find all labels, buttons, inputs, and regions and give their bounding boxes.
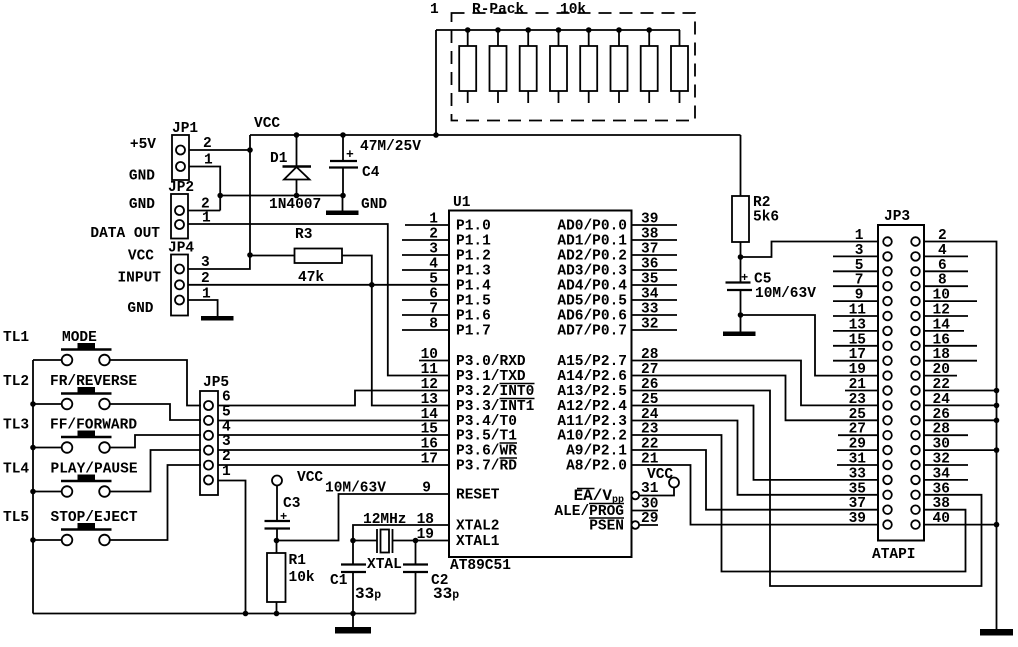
wire U1 pin25 A12/P2.4 to JP3 pin33 <box>632 406 879 480</box>
connector JP4 <box>171 255 188 316</box>
svg-text:10: 10 <box>421 347 438 363</box>
svg-text:VCC: VCC <box>128 249 154 265</box>
U1 pin 12 P3.2 <box>421 377 535 400</box>
svg-text:1: 1 <box>430 2 439 18</box>
svg-text:33: 33 <box>641 302 658 318</box>
wire U1 pin21 A8/P2.0 to JP3 pin39 <box>632 465 879 525</box>
wire JP5 pin2 to U1 pin17 <box>218 464 449 466</box>
wire button common vertical <box>32 360 34 614</box>
U1 pin 16 P3.6 <box>421 437 518 460</box>
U1 pin 32 stub AD7/P0.7 <box>557 317 677 340</box>
svg-text:PLAY/PAUSE: PLAY/PAUSE <box>51 462 138 478</box>
svg-text:FF/FORWARD: FF/FORWARD <box>50 418 137 434</box>
svg-text:+: + <box>741 271 748 285</box>
svg-text:INPUT: INPUT <box>117 271 161 287</box>
svg-text:AD7/P0.7: AD7/P0.7 <box>557 324 627 340</box>
svg-text:TL3: TL3 <box>3 418 29 434</box>
svg-text:3: 3 <box>429 242 438 258</box>
wire JP5 pin4 to U1 pin15 <box>218 434 449 436</box>
svg-text:38: 38 <box>641 227 658 243</box>
svg-text:AD5/P0.5: AD5/P0.5 <box>557 294 627 310</box>
svg-text:P1.0: P1.0 <box>456 219 491 235</box>
U1 pin 25 label A12/P2.4 <box>557 392 658 415</box>
svg-text:15: 15 <box>421 422 438 438</box>
svg-text:AD6/P0.6: AD6/P0.6 <box>557 309 627 325</box>
ground symbol right <box>980 629 1013 636</box>
svg-text:FR/REVERSE: FR/REVERSE <box>50 374 137 390</box>
U1 pin 2 stub P1.1 <box>402 227 491 250</box>
U1 pin 37 stub AD2/P0.2 <box>557 242 677 265</box>
svg-text:P1.2: P1.2 <box>456 249 491 265</box>
svg-text:MODE: MODE <box>62 330 97 346</box>
wire U1 pin27 A14/P2.6 to JP3 pin25 <box>632 376 879 421</box>
U1 pin 14 P3.4 <box>421 407 517 430</box>
wire TL5 to JP5 <box>110 465 201 540</box>
junction C4/GND <box>340 193 346 199</box>
svg-text:10k: 10k <box>289 570 315 586</box>
svg-text:R1: R1 <box>289 553 307 569</box>
U1 pin 6 stub P1.5 <box>402 287 491 310</box>
resistor R-Pack element 8 <box>671 30 688 103</box>
svg-text:6: 6 <box>222 390 231 406</box>
U1 pin 21 label A8/P2.0 <box>566 452 659 475</box>
wire JP3 pin 15 stub <box>833 345 878 347</box>
svg-text:P3.7/RD: P3.7/RD <box>456 459 517 475</box>
svg-text:12: 12 <box>421 377 438 393</box>
svg-text:A8/P2.0: A8/P2.0 <box>566 459 627 475</box>
junction ground bus pin 22 <box>994 388 1000 394</box>
wire JP4 pin1 to ground <box>188 300 218 316</box>
wire JP3 pin 5 stub <box>833 270 878 272</box>
wire JP3 pin 28 stub <box>924 434 968 436</box>
svg-text:1: 1 <box>222 464 231 480</box>
resistor R3 <box>250 249 372 285</box>
U1 pin 3 stub P1.2 <box>402 242 491 265</box>
wire U1 XTAL1 to crystal <box>416 540 450 542</box>
svg-text:AD2/P0.2: AD2/P0.2 <box>557 249 627 265</box>
wire JP3 pin 20 stub <box>924 375 957 377</box>
svg-text:AD1/P0.1: AD1/P0.1 <box>557 234 627 250</box>
svg-text:4: 4 <box>429 257 438 273</box>
junction common/TL5 <box>30 537 36 543</box>
junction D1/VCC <box>294 132 300 138</box>
svg-text:P3.2/INT0: P3.2/INT0 <box>456 384 534 400</box>
svg-text:JP3: JP3 <box>884 209 910 225</box>
svg-text:JP4: JP4 <box>168 241 194 257</box>
svg-text:AD0/P0.0: AD0/P0.0 <box>557 219 627 235</box>
connector JP5 <box>200 391 218 495</box>
wire DATA OUT to U1 pin11 TXD <box>188 224 449 376</box>
wire JP3 pin2 to ground bus <box>924 242 997 630</box>
svg-text:GND: GND <box>129 169 155 185</box>
U1 pin 19 XTAL1 label <box>417 527 500 550</box>
capacitor C4 <box>329 135 358 196</box>
U1 pin 1 stub P1.0 <box>405 212 491 235</box>
resistor R-Pack element 4 <box>550 27 567 103</box>
svg-text:10k: 10k <box>560 2 586 18</box>
wire U1 pin24 A11/P2.3 to JP3 pin35 <box>632 421 879 495</box>
svg-text:JP2: JP2 <box>168 180 194 196</box>
svg-text:10M/63V: 10M/63V <box>755 286 816 302</box>
U1 pin 18 XTAL2 label <box>417 512 500 535</box>
ground symbol JP4 <box>201 316 234 321</box>
U1 pin 31 EA/Vpp <box>574 481 659 506</box>
svg-text:U1: U1 <box>453 195 471 211</box>
power VCC symbol at pin31 <box>669 478 679 488</box>
svg-text:AD4/P0.4: AD4/P0.4 <box>557 279 627 295</box>
wire U1 pin28 A15/P2.7 to JP3 pin23 <box>632 361 879 406</box>
junction JP5 pin1/ground rail <box>243 611 249 617</box>
ground symbol C5 <box>723 332 756 337</box>
svg-text:P3.5/T1: P3.5/T1 <box>456 429 517 445</box>
svg-text:+5V: +5V <box>130 137 156 153</box>
U1 pin 27 label A14/P2.6 <box>557 362 658 385</box>
junction R1/ground rail <box>274 611 280 617</box>
capacitor C5 <box>726 257 753 332</box>
U1 pin 24 label A11/P2.3 <box>557 407 658 430</box>
capacitor C2 <box>403 541 428 614</box>
wire JP3 pin 27 stub <box>838 434 878 436</box>
ground symbol bottom <box>335 614 371 634</box>
svg-text:8: 8 <box>429 317 438 333</box>
wire JP3 pin 8 stub <box>924 285 968 287</box>
svg-text:VCC: VCC <box>297 470 323 486</box>
U1 pin 38 stub AD1/P0.1 <box>557 227 677 250</box>
U1 pin 23 label A10/P2.2 <box>557 422 658 445</box>
wire JP3 pin 26 to ground bus <box>924 419 997 421</box>
junction ground bus pin 30 <box>994 447 1000 453</box>
wire JP3 pin 9 stub <box>833 300 878 302</box>
svg-text:TL5: TL5 <box>3 510 29 526</box>
wire TL3 to JP5 <box>110 435 201 448</box>
svg-text:2: 2 <box>429 227 438 243</box>
svg-text:4: 4 <box>222 419 231 435</box>
power VCC symbol at C3 <box>272 476 282 486</box>
svg-text:1: 1 <box>855 228 864 244</box>
junction common/TL2 <box>30 401 36 407</box>
svg-text:10M/63V: 10M/63V <box>325 481 386 497</box>
svg-text:12MHz: 12MHz <box>363 512 407 528</box>
wire JP3 pin 24 to ground bus <box>924 404 997 406</box>
U1 pin 5 stub P1.4 <box>429 271 491 294</box>
svg-text:GND: GND <box>361 197 387 213</box>
svg-text:C4: C4 <box>362 165 380 181</box>
wire JP3 pin 29 stub <box>837 449 878 451</box>
ground symbol near C4 <box>326 196 359 216</box>
svg-text:A13/P2.5: A13/P2.5 <box>557 384 627 400</box>
svg-text:A14/P2.6: A14/P2.6 <box>557 369 627 385</box>
wire JP3 pin 3 stub <box>833 255 878 257</box>
wire JP3 pin 32 stub <box>924 464 968 466</box>
wire R-Pack common bus <box>436 29 680 31</box>
crystal XTAL <box>353 529 416 553</box>
diode D1 <box>283 135 312 196</box>
wire JP3 pin 10 stub <box>924 300 977 302</box>
U1 pin 30 ALE/PROG <box>554 497 658 521</box>
wire JP3 pin 11 stub <box>833 315 878 317</box>
svg-text:1N4007: 1N4007 <box>269 197 321 213</box>
U1 pin 33 stub AD6/P0.6 <box>557 302 677 325</box>
junction R2/C5/JP3 pin1 <box>738 254 744 260</box>
svg-text:JP1: JP1 <box>172 121 198 137</box>
svg-text:XTAL2: XTAL2 <box>456 519 500 535</box>
junction INPUT/R3 <box>369 282 375 288</box>
wire JP3 pin 7 stub <box>833 285 878 287</box>
svg-text:A10/P2.2: A10/P2.2 <box>557 429 627 445</box>
connector JP2 <box>171 194 188 239</box>
svg-text:32: 32 <box>641 317 658 333</box>
svg-text:DATA OUT: DATA OUT <box>90 226 160 242</box>
junction R-Pack/VCC <box>433 132 439 138</box>
junction JP1 GND/JP2 GND <box>217 193 223 199</box>
wire TL2 to JP5 <box>110 404 201 420</box>
wire JP3 pin 18 stub <box>924 360 977 362</box>
junction ground bus pin 26 <box>994 418 1000 424</box>
resistor R1 <box>267 541 286 614</box>
U1 pin 11 P3.1 <box>421 362 526 385</box>
resistor R-Pack element 1 <box>459 27 476 103</box>
wire U1 pin22 A9/P2.1 to JP3 pin37 <box>632 450 879 510</box>
svg-text:GND: GND <box>127 301 153 317</box>
svg-text:3: 3 <box>222 434 231 450</box>
op-amp U1 microcontroller body <box>449 211 632 558</box>
svg-text:P1.6: P1.6 <box>456 309 491 325</box>
svg-text:P1.4: P1.4 <box>456 278 491 294</box>
wire GND net horizontal <box>220 195 342 197</box>
svg-text:A9/P2.1: A9/P2.1 <box>566 444 627 460</box>
svg-text:11: 11 <box>421 362 439 378</box>
svg-text:29: 29 <box>641 511 658 527</box>
resistor R-Pack element 2 <box>490 27 507 103</box>
wire JP3 pin 40 to ground bus <box>924 524 997 526</box>
svg-text:16: 16 <box>421 437 438 453</box>
wire JP2 pin2 to GND net <box>188 210 220 212</box>
U1 pin 29 PSEN <box>589 511 658 535</box>
resistor R-Pack element 3 <box>520 27 537 103</box>
resistor R-Pack element 7 <box>641 27 658 103</box>
wire R-Pack pin1 to VCC rail <box>435 30 437 135</box>
svg-text:GND: GND <box>129 197 155 213</box>
svg-text:P1.7: P1.7 <box>456 324 491 340</box>
wire bottom ground rail <box>33 613 416 615</box>
resistor R-Pack element 6 <box>611 27 628 103</box>
svg-text:P1.3: P1.3 <box>456 264 491 280</box>
svg-text:TL1: TL1 <box>3 330 29 346</box>
wire JP1 pin2 to VCC <box>189 149 250 151</box>
wire JP3 pin 30 to ground bus <box>924 449 997 451</box>
wire JP5 pin6 to U1 pin12 INT0 <box>218 391 449 406</box>
connector JP3 body <box>878 225 924 541</box>
wire JP3 pin 14 stub <box>924 330 964 332</box>
wire VCC rail <box>250 134 741 136</box>
svg-text:5k6: 5k6 <box>753 210 779 226</box>
svg-text:VCC: VCC <box>254 116 280 132</box>
wire JP5 pin3 to U1 pin16 <box>218 449 449 451</box>
junction ground bus pin 24 <box>994 403 1000 409</box>
junction common/TL4 <box>30 489 36 495</box>
junction D1/GND <box>294 193 300 199</box>
wire JP3 pin 16 stub <box>924 345 977 347</box>
svg-text:R-Pack: R-Pack <box>472 2 525 18</box>
U1 pin 22 label A9/P2.1 <box>566 437 658 460</box>
U1 pin 26 label A13/P2.5 <box>557 377 658 400</box>
wire JP3 pin 34 stub <box>924 479 968 481</box>
svg-text:D1: D1 <box>270 151 288 167</box>
switch TL2 FR/REVERSE <box>33 387 112 409</box>
junction XTAL2/C1 <box>350 538 356 544</box>
svg-text:17: 17 <box>421 452 438 468</box>
resistor R2 <box>732 135 749 257</box>
wire JP3 pin 4 stub <box>924 255 968 257</box>
wire JP5 pin1 to ground rail <box>218 481 246 614</box>
junction XTAL1/C2 <box>413 538 419 544</box>
wire U1 RESET to C3/R1 <box>277 494 450 541</box>
wire U1 pin31 to VCC bubble <box>639 488 674 496</box>
svg-text:STOP/EJECT: STOP/EJECT <box>51 510 138 526</box>
wire TL4 to JP5 <box>110 450 201 492</box>
svg-text:7: 7 <box>429 302 438 318</box>
junction ground bus pin 40 <box>994 522 1000 528</box>
wire R2 to JP3 pin1 <box>741 242 879 258</box>
U1 pin 10 P3.0 <box>419 347 526 370</box>
svg-text:P3.3/INT1: P3.3/INT1 <box>456 399 535 415</box>
wire JP3 pin 31 stub <box>837 464 878 466</box>
svg-text:47k: 47k <box>298 270 324 286</box>
wire U1 pin23 A10/P2.2 to JP3 pin38 <box>632 435 966 572</box>
wire JP4 pin3 to VCC <box>188 255 250 269</box>
U1 pin 28 label A15/P2.7 <box>557 347 658 370</box>
U1 pin 34 stub AD5/P0.5 <box>557 287 677 310</box>
junction C5/JP3 pin19 <box>738 312 744 318</box>
U1 pin 39 stub AD0/P0.0 <box>557 212 677 235</box>
wire JP3 pin 6 stub <box>924 270 968 272</box>
svg-text:XTAL: XTAL <box>367 557 402 573</box>
svg-text:A12/P2.4: A12/P2.4 <box>557 399 627 415</box>
svg-text:35: 35 <box>641 272 658 288</box>
wire JP3 pin 13 stub <box>833 330 878 332</box>
wire JP3 pin 12 stub <box>924 315 968 317</box>
svg-text:13: 13 <box>421 392 438 408</box>
svg-text:5: 5 <box>429 271 438 287</box>
U1 pin 36 stub AD3/P0.3 <box>557 257 677 280</box>
svg-text:AT89C51: AT89C51 <box>450 558 511 574</box>
svg-text:+: + <box>280 510 287 524</box>
svg-text:5: 5 <box>222 404 231 420</box>
U1 pin 35 stub AD4/P0.4 <box>557 272 677 295</box>
wire VCC rail left drop <box>249 135 251 255</box>
U1 pin 15 P3.5 <box>421 422 518 445</box>
svg-text:P1.5: P1.5 <box>456 294 491 310</box>
switch TL5 STOP/EJECT <box>33 523 112 545</box>
resistor R-Pack element 5 <box>580 27 597 103</box>
svg-text:37: 37 <box>641 242 658 258</box>
U1 pin 7 stub P1.6 <box>402 302 491 325</box>
wire JP4 pin2 INPUT to U1 pin5 <box>188 284 449 286</box>
svg-text:P3.1/TXD: P3.1/TXD <box>456 369 526 385</box>
svg-text:47M/25V: 47M/25V <box>360 139 421 155</box>
svg-text:C1: C1 <box>330 573 348 589</box>
junction VCC/R3/JP4 pin3 <box>247 252 253 258</box>
svg-text:2: 2 <box>222 449 231 465</box>
switch TL3 FF/FORWARD <box>33 431 112 453</box>
wire JP3 pin 21 stub <box>845 390 878 392</box>
U1 pin 4 stub P1.3 <box>402 257 491 280</box>
switch TL1 MODE <box>33 343 112 365</box>
svg-text:19: 19 <box>849 362 866 378</box>
wire U1 pin26 A13/P2.5 to JP3 pin36 <box>632 391 982 587</box>
junction C4/VCC <box>340 132 346 138</box>
svg-text:ATAPI: ATAPI <box>872 547 916 563</box>
svg-text:RESET: RESET <box>456 488 500 504</box>
svg-text:AD3/P0.3: AD3/P0.3 <box>557 264 627 280</box>
capacitor C1 <box>341 541 366 614</box>
svg-text:PSEN: PSEN <box>589 519 624 535</box>
svg-text:39: 39 <box>641 212 658 228</box>
svg-text:P3.6/WR: P3.6/WR <box>456 444 517 460</box>
svg-text:+: + <box>346 147 354 162</box>
wire TL1 to JP5 <box>110 360 201 406</box>
U1 pin 8 stub P1.7 <box>402 317 491 340</box>
resistor pack RP1 dashed outline <box>452 13 696 121</box>
wire JP5 pin5 to U1 pin14 <box>218 420 449 422</box>
wire JP1 pin1 to GND net <box>189 167 220 211</box>
wire C5 ground to JP3 pin19 <box>741 315 879 376</box>
wire JP3 pin 22 to ground bus <box>924 390 997 392</box>
svg-text:XTAL1: XTAL1 <box>456 534 500 550</box>
junction C1/ground rail <box>350 611 356 617</box>
wire JP3 pin 17 stub <box>833 360 878 362</box>
U1 pin 9 RESET label <box>422 481 500 504</box>
svg-text:TL2: TL2 <box>3 374 29 390</box>
junction C3/R1/RESET <box>274 538 280 544</box>
svg-text:P1.1: P1.1 <box>456 234 491 250</box>
svg-text:1: 1 <box>429 212 438 228</box>
connector JP1 <box>172 135 189 180</box>
svg-text:P3.0/RXD: P3.0/RXD <box>456 354 526 370</box>
switch TL4 PLAY/PAUSE <box>33 475 112 497</box>
junction VCC/JP1 pin2 <box>247 147 253 153</box>
svg-text:A15/P2.7: A15/P2.7 <box>557 354 627 370</box>
junction common/TL3 <box>30 445 36 451</box>
svg-text:34: 34 <box>641 287 659 303</box>
wire INPUT branch to U1 pin13 INT1 <box>372 285 449 406</box>
svg-text:TL4: TL4 <box>3 462 29 478</box>
capacitor C3 <box>265 486 291 541</box>
svg-text:VCC: VCC <box>647 467 673 483</box>
U1 pin 17 P3.7 <box>421 452 518 475</box>
svg-text:R3: R3 <box>295 227 312 243</box>
wire U1 XTAL2 to crystal <box>353 525 449 541</box>
svg-text:6: 6 <box>429 287 438 303</box>
U1 pin 13 P3.3 <box>421 392 535 415</box>
svg-text:36: 36 <box>641 257 658 273</box>
